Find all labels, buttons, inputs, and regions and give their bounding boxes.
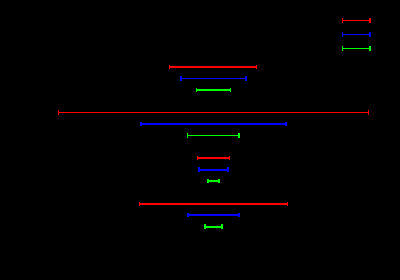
legend errorbar green (series 3 key sample) (342, 46, 371, 51)
cluster 2 errorbar red (58, 110, 369, 115)
legend errorbar red (series 1 key sample) (342, 18, 371, 23)
cluster 4 errorbar blue (187, 213, 240, 217)
cluster 3 errorbar blue (198, 167, 229, 172)
cluster 1 errorbar red (169, 65, 257, 69)
cluster 1 errorbar blue (180, 76, 247, 81)
cluster 4 errorbar green (204, 224, 223, 229)
cluster 2 errorbar blue (140, 122, 287, 126)
cluster 3 errorbar green (207, 179, 220, 183)
cluster 1 errorbar green (196, 88, 231, 92)
cluster 3 errorbar red (197, 156, 230, 160)
cluster 2 errorbar green (187, 133, 240, 138)
cluster 4 errorbar red (139, 202, 288, 206)
legend errorbar blue (series 2 key sample) (342, 32, 371, 37)
